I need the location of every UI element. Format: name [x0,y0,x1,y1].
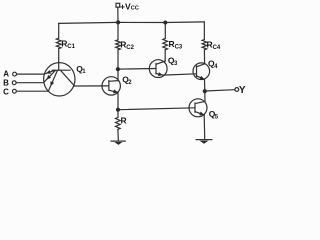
svg-text:1: 1 [82,69,86,75]
svg-text:C: C [3,88,9,97]
svg-text:CC: CC [131,5,140,11]
svg-text:+V: +V [120,1,131,11]
svg-text:Y: Y [239,85,246,96]
svg-text:C2: C2 [126,45,134,51]
svg-text:2: 2 [128,80,132,86]
svg-text:5: 5 [215,114,219,120]
svg-text:C3: C3 [175,44,183,50]
svg-text:R: R [121,116,127,126]
svg-text:C1: C1 [67,44,75,50]
svg-text:4: 4 [214,64,218,70]
svg-text:3: 3 [174,61,178,67]
svg-text:B: B [3,78,9,87]
svg-text:C4: C4 [213,45,221,51]
svg-text:A: A [3,70,9,79]
